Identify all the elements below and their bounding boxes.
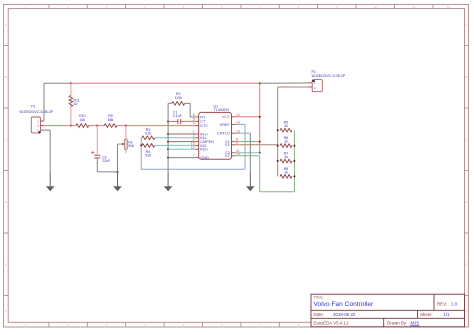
svg-text:22uF: 22uF <box>102 159 110 163</box>
capacitor C2 22uF polarized <box>94 154 100 156</box>
wire: teal C2 pin wire to red vertical <box>235 152 259 154</box>
node: GND pin junction on ground bus <box>167 157 169 159</box>
U1 right pin 9 E1 stub <box>232 144 236 146</box>
svg-text:1k: 1k <box>284 170 288 174</box>
P1 pin 3 stub and number <box>41 129 44 131</box>
node: rail junction above potentiometer R1 <box>125 125 127 127</box>
svg-text:7: 7 <box>193 154 195 158</box>
resistor R5 1k horizontal <box>280 128 292 132</box>
resistor R8 1k horizontal <box>280 175 292 179</box>
svg-text:1k: 1k <box>284 140 288 144</box>
svg-text:GND: GND <box>200 156 209 160</box>
ground symbol under wiper/C2 node <box>117 172 119 186</box>
wire: pale red drop from rail junction2 to potentiometer R1 top <box>125 126 127 139</box>
svg-text:51k: 51k <box>145 131 151 135</box>
title block REV cell divider <box>433 294 435 310</box>
U1 right pin 10 E2 stub <box>232 155 236 157</box>
underline under MJS <box>410 325 420 327</box>
svg-text:WJ2EDGVC-5.08-3P: WJ2EDGVC-5.08-3P <box>19 110 53 114</box>
svg-text:50k: 50k <box>128 144 134 148</box>
node: C1 pin junction on red vertical <box>259 141 261 143</box>
wire: red vertical through R11 top <box>70 83 72 95</box>
wire: teal R4 right to U1 IN2- <box>155 144 195 146</box>
title block Drawn-By cell divider <box>383 318 385 327</box>
resistor R7 1k horizontal <box>280 159 292 163</box>
wire: gray GND pin wire from bus to U1 <box>168 157 195 159</box>
wire: blue CNTLO stub to ground drop <box>235 132 250 134</box>
P1 pin 1 stub and number <box>41 120 44 122</box>
left border row labels <box>5 23 8 313</box>
svg-text:2018-05-22: 2018-05-22 <box>333 312 356 317</box>
P1 pin1 marker square <box>39 131 41 133</box>
wire: gray R2 right leg down to U1 RT pin <box>185 102 190 104</box>
ground symbol under P1 <box>49 172 51 186</box>
wire: brown wire from bank top to P2 pin 2 <box>278 86 308 88</box>
svg-text:10k: 10k <box>79 118 85 122</box>
title block outline <box>311 294 465 327</box>
svg-text:WJ2EDGVC-5.08-2P: WJ2EDGVC-5.08-2P <box>312 74 346 78</box>
svg-text:F: F <box>5 309 7 313</box>
svg-text:CNTLO: CNTLO <box>217 132 230 136</box>
wire: dark red IN1+ wire from bus to U1 <box>168 133 195 135</box>
connector P2 WJ2EDGVC-5.08-2P body <box>312 80 322 92</box>
resistor R9 68k horizontal <box>104 124 117 128</box>
P1 pin 2 stub and number <box>41 125 44 127</box>
node: top rail / R11 junction <box>70 82 72 84</box>
U1 right pin 11 C2 stub <box>232 152 236 154</box>
U1 left pin 2 IN1- stub <box>195 137 199 139</box>
wire: teal IN2+ wire from bus to U1 <box>168 148 195 150</box>
U1 right pin 12 VCC stub <box>232 116 236 118</box>
svg-text:68k: 68k <box>108 118 114 122</box>
node: rail junction above C2 <box>96 125 98 127</box>
svg-text:0.1uF: 0.1uF <box>173 114 182 118</box>
svg-text:E1: E1 <box>225 143 230 147</box>
wire: rail R9 to junction2 <box>117 125 126 127</box>
svg-text:1k: 1k <box>284 124 288 128</box>
wire: gray ground bus vertical <box>167 103 169 172</box>
resistor R10 10k horizontal <box>76 124 89 128</box>
wire: gray rail segment to P2 pin 1 <box>260 82 308 84</box>
title block Sheet cell divider <box>417 310 419 318</box>
U1 left pin 1 IN1+ stub <box>195 133 199 135</box>
bottom border column ticks <box>49 322 433 327</box>
svg-text:IN2+: IN2+ <box>200 148 209 152</box>
U1 left pin 6 RT stub <box>195 116 199 118</box>
wire: gray wiper drop to ground junction <box>117 144 119 172</box>
node: R5 left junction <box>277 129 279 131</box>
wire: brown resistor bank left vertical <box>277 87 279 176</box>
svg-text:REV:: REV: <box>437 301 447 306</box>
bottom border column labels <box>25 323 451 327</box>
potentiometer R1 wiper arrow <box>118 143 123 145</box>
svg-text:E2: E2 <box>225 154 230 158</box>
U1 right pin 14 VREF stub <box>232 123 236 125</box>
resistor R6 1k horizontal <box>280 144 292 148</box>
wire: red top supply rail <box>71 82 260 84</box>
node: R7 left junction <box>277 160 279 162</box>
svg-text:Volvo Fan Controller: Volvo Fan Controller <box>314 301 375 308</box>
svg-text:1/1: 1/1 <box>444 312 451 317</box>
node: R6 right junction <box>293 145 295 147</box>
svg-text:VCC: VCC <box>222 115 230 119</box>
svg-text:MJS: MJS <box>411 321 420 326</box>
wire: gray P1 pin3 to ground <box>41 129 51 131</box>
svg-text:B: B <box>465 75 467 79</box>
wire: gray R2 left leg down to ground bus top <box>168 102 172 104</box>
wire: tan rail segment junction2 to U1 DTC pin <box>126 125 195 127</box>
resistor R11 1k vertical <box>69 96 73 107</box>
wire: dark red CMPEN wire from bus to U1 <box>168 141 195 143</box>
wire: gray CNTLO drop to ground <box>249 133 251 172</box>
left border row ticks <box>4 46 9 296</box>
right border row labels <box>465 23 468 313</box>
wire: blue vertical joining R3 R4 left ends <box>140 138 142 170</box>
svg-text:1k: 1k <box>74 102 78 106</box>
svg-text:Sheet:: Sheet: <box>420 312 433 317</box>
svg-text:EasyEDA V5.4.12: EasyEDA V5.4.12 <box>314 321 349 326</box>
svg-text:TL494CN: TL494CN <box>214 108 230 112</box>
wire: red C1 pin wire to red vertical <box>235 141 259 143</box>
svg-text:1k: 1k <box>284 155 288 159</box>
right border row ticks <box>465 46 469 296</box>
wire: C1 right wire to U1 CT pin <box>181 120 195 122</box>
svg-text:1.0: 1.0 <box>451 301 458 306</box>
svg-text:16: 16 <box>191 145 195 149</box>
wire: blue bottom feedback run <box>141 168 245 170</box>
U1 left pin 16 IN2+ stub <box>195 148 199 150</box>
svg-text:10: 10 <box>374 5 378 9</box>
resistor R2 110k horizontal <box>172 102 185 106</box>
wire: green E2 wire right <box>235 155 259 157</box>
wire: red vertical VCC drop from top rail to C2 pin row <box>259 83 261 153</box>
wire: blue vertical up to U1 VREF <box>244 124 246 169</box>
svg-text:E: E <box>465 262 467 266</box>
potentiometer R1 center lead <box>125 139 127 153</box>
wire: gray riser from P1 pin1 up to top rail <box>43 83 45 121</box>
node: R7 right junction <box>293 160 295 162</box>
resistor R3 51k horizontal <box>142 136 155 140</box>
node: R4 left junction on blue vertical <box>140 144 142 146</box>
svg-text:4: 4 <box>193 122 195 126</box>
U1 left pin 4 DTC stub <box>195 125 199 127</box>
svg-text:51k: 51k <box>145 154 151 158</box>
node: IN2+ junction on ground bus <box>167 148 169 150</box>
top border column ticks <box>49 4 433 8</box>
svg-text:TITLE:: TITLE: <box>314 295 324 299</box>
op-amp/controller U1 TL494CN body <box>199 112 232 159</box>
node: C1 left junction on ground bus <box>167 121 169 123</box>
node: ground junction under potentiometer wiper <box>117 171 119 173</box>
ground symbol at bottom of ground bus <box>167 172 169 186</box>
U1 left pin 15 IN2- stub <box>195 144 199 146</box>
U1 right pin 8 C1 stub <box>232 141 236 143</box>
svg-text:DTC: DTC <box>200 124 208 128</box>
potentiometer R1 50k body <box>124 139 127 150</box>
svg-text:A: A <box>465 23 467 27</box>
P2 pin 1 stub and number <box>308 82 312 84</box>
wire: brown E1 output wire to resistor bank left vertical <box>235 144 277 146</box>
svg-text:Drawn By:: Drawn By: <box>387 321 407 326</box>
wire: red main rail from P1 pin2 to R10 <box>41 125 76 127</box>
svg-text:A: A <box>5 23 7 27</box>
wire: gray from C2 bottom down and right to ground node <box>96 158 98 172</box>
wire: rail junction to R9 <box>97 125 104 127</box>
P2 pin1 marker square <box>313 80 315 82</box>
U1 left pin 7 GND stub <box>195 157 199 159</box>
svg-text:B: B <box>5 75 7 79</box>
top border column labels <box>25 5 451 9</box>
resistor R4 51k horizontal <box>142 144 155 148</box>
wire: gray top segment to R11 junction <box>44 82 71 84</box>
svg-text:12: 12 <box>447 5 451 9</box>
U1 left pin 3 CMPEN stub <box>195 141 199 143</box>
svg-text:F: F <box>465 309 467 313</box>
node: R6/E1 left junction <box>277 145 279 147</box>
node: C2 pin connection at red vertical bottom <box>259 152 261 154</box>
wire: red VCC wire from U1 to red vertical <box>235 116 259 118</box>
P2 pin 2 stub and number <box>308 86 312 88</box>
wire: rail R10 to junction <box>89 125 98 127</box>
plus sign of C2 <box>91 151 94 153</box>
svg-text:E: E <box>5 262 7 266</box>
node: rail junction at R11 bottom <box>70 125 72 127</box>
wire: teal R3 right to U1 IN1- <box>155 137 195 139</box>
svg-text:14: 14 <box>236 121 240 125</box>
wire: green right vertical of resistor bank <box>293 130 295 192</box>
wire: green E2 drop <box>259 156 261 192</box>
node: VCC junction <box>259 116 261 118</box>
node: VCC drop junction on top rail <box>259 82 261 84</box>
title block row divider 1 <box>311 309 465 311</box>
wire: pale red drop from rail junction down to C2 <box>96 126 98 155</box>
wire: C1 left wire from ground bus <box>168 121 178 123</box>
U1 left pin 5 CT stub <box>195 120 199 122</box>
wire: red vertical R11 bottom to main rail <box>70 107 72 126</box>
node: IN1+ junction on ground bus <box>167 133 169 135</box>
node: CMPEN junction on ground bus <box>167 141 169 143</box>
ground symbol under CNTLO <box>249 172 251 186</box>
svg-text:110k: 110k <box>175 96 183 100</box>
U1 right pin 13 CNTLO stub <box>232 132 236 134</box>
connector P1 WJ2EDGVC-5.08-3P body <box>31 117 40 133</box>
capacitor C1 0.1uF <box>177 119 179 124</box>
node: R8 right junction <box>293 175 295 177</box>
svg-text:Date:: Date: <box>314 312 325 317</box>
title block row divider 2 <box>311 317 465 319</box>
svg-text:P1: P1 <box>31 104 35 108</box>
svg-text:VREF: VREF <box>220 123 231 127</box>
wire: green bottom run <box>260 191 295 193</box>
svg-text:11: 11 <box>412 5 415 9</box>
